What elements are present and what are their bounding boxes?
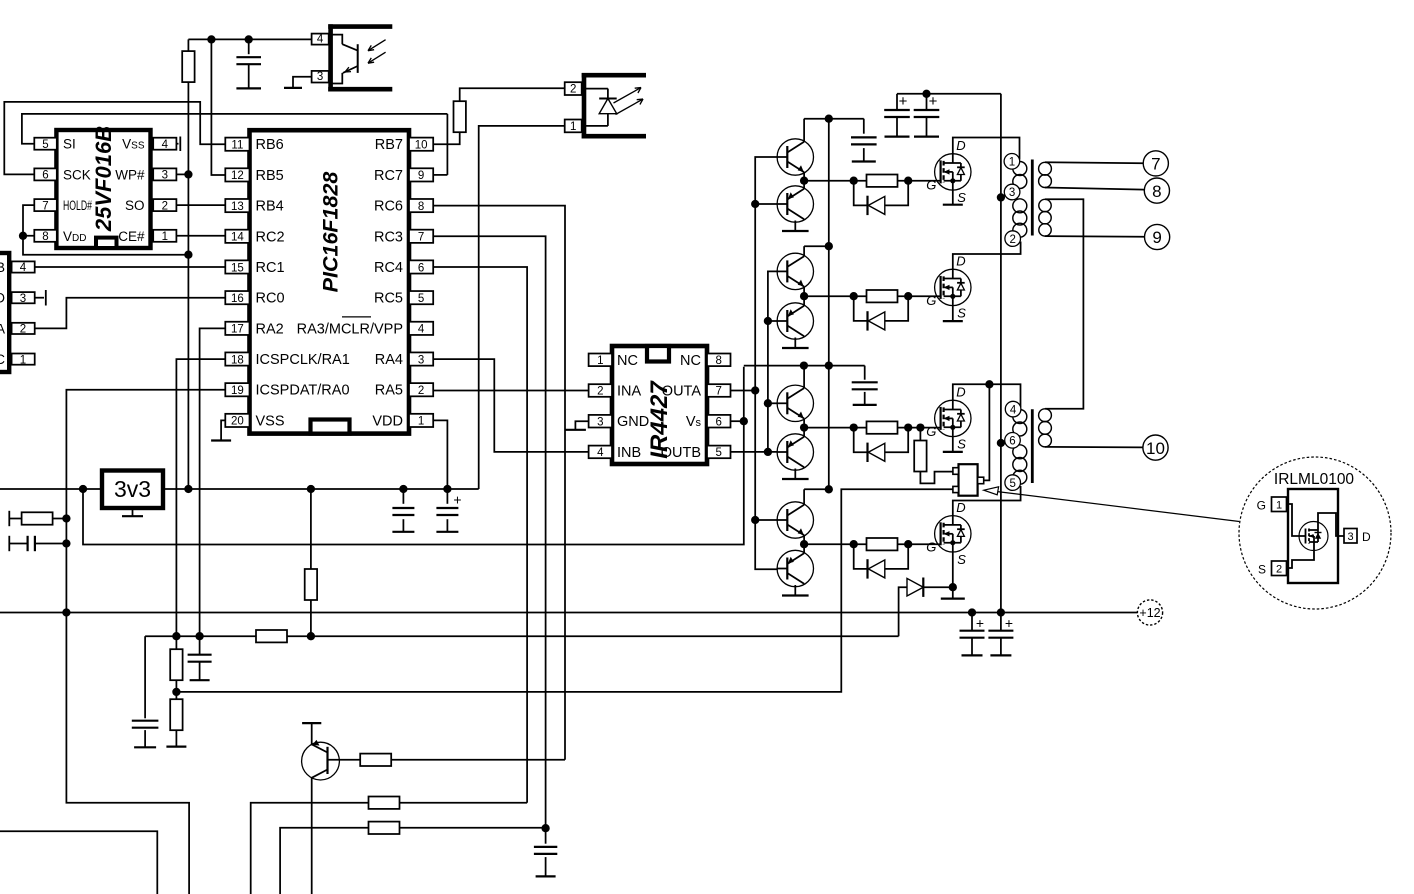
svg-text:6: 6 (418, 262, 424, 274)
diode D row1 (854, 181, 909, 215)
terminal 7 (1143, 151, 1168, 176)
svg-text:6: 6 (1009, 436, 1015, 448)
transistor Q4 (PNP lower) (777, 303, 813, 339)
ground at M3 source (952, 437, 954, 452)
transformer TR1 primary winding (1013, 162, 1027, 176)
resistor R6 (divider upper) (175, 636, 177, 649)
svg-text:6: 6 (715, 416, 721, 428)
pin 4 of U1 (409, 322, 433, 335)
wire T7 base stub (755, 519, 777, 521)
wire U2 SI to RC7 net (22, 114, 448, 144)
svg-text:D: D (956, 384, 965, 399)
resistor gate R row1 (867, 175, 898, 187)
node RC3/C7 (541, 824, 549, 832)
node rail2 (825, 242, 833, 250)
transistor Q5 (NPN upper) (777, 385, 813, 421)
wire ICSPDAT left-down (66, 390, 225, 613)
svg-text:S: S (1258, 563, 1266, 577)
terminal 5 of TR2 (1005, 475, 1021, 491)
wire TR1 tap3 to +12 (1001, 195, 1005, 197)
svg-text:RB7: RB7 (375, 137, 403, 153)
svg-text:4: 4 (162, 139, 169, 151)
svg-text:13: 13 (231, 201, 244, 213)
pin 3 of U1 (409, 352, 433, 365)
node row1 right (904, 177, 912, 185)
svg-text:ICSPDAT/RA0: ICSPDAT/RA0 (256, 383, 350, 399)
transformer TR2 secondary (1039, 409, 1052, 422)
transformer TR2 core (1031, 409, 1034, 483)
node row1 left (850, 177, 858, 185)
node U2 VDD (19, 232, 27, 240)
node rail1 (825, 115, 833, 123)
node ICSPCLK/bus636 (172, 632, 180, 640)
notch of U1 (311, 420, 350, 434)
resistor gate R row3 (867, 421, 898, 433)
wire bottom RC3 leg (280, 828, 369, 894)
svg-text:S: S (957, 552, 966, 567)
node ICSPDAT/bus612 (62, 608, 70, 616)
svg-text:4: 4 (20, 262, 27, 274)
pin 1 of J1 (12, 354, 35, 365)
ground at lower transistor (794, 221, 796, 232)
pin 7 of U2 (34, 199, 57, 211)
pin 11 of U1 (225, 138, 249, 151)
svg-text:VSS: VSS (256, 413, 285, 429)
wire RC3 down (433, 236, 545, 828)
pin 2 of optocoupler U4 (565, 82, 582, 95)
wire emitter node (803, 535, 805, 553)
wire RC6 down to Q5 base (433, 206, 565, 760)
capacitor C6 (RA2 filter) (199, 636, 201, 654)
node R1/WP# junction (184, 170, 192, 178)
pin 2 of Q9 detail (1272, 561, 1287, 576)
ground at M1 source (952, 190, 954, 205)
svg-text:NC: NC (617, 353, 638, 369)
wire U2 SO to RB4 (176, 204, 224, 206)
svg-text:2: 2 (1276, 564, 1282, 576)
transistor Q5 (bottom) (302, 742, 340, 780)
svg-text:RA3/MCLR/VPP: RA3/MCLR/VPP (297, 321, 403, 337)
node row2 left (850, 292, 858, 300)
pin 3 of J1 (12, 292, 35, 303)
wire rail1 (804, 118, 864, 120)
pin 19 of U1 (225, 383, 249, 396)
node rail/C2 junction (399, 485, 407, 493)
capacitor C11 electrolytic (top) (926, 94, 928, 110)
svg-text:8: 8 (715, 355, 721, 367)
wire TR1 sec to term 9 (1045, 235, 1145, 238)
connector J1 body (left edge) (0, 253, 9, 372)
svg-text:RC4: RC4 (374, 260, 403, 276)
resistor R9 (RC3 bottom) (369, 822, 400, 834)
pin 1 of U1 (409, 414, 433, 427)
svg-text:8: 8 (42, 231, 48, 243)
svg-text:2: 2 (1009, 234, 1015, 246)
wire ICSPCLK down (176, 359, 225, 636)
svg-text:IRLML0100: IRLML0100 (1274, 471, 1355, 488)
ground at M2 source (952, 306, 954, 322)
stub at U2 pin 4 Vss (176, 143, 178, 145)
svg-text:SCK: SCK (63, 167, 91, 182)
wire collector to rail (803, 489, 805, 505)
LED inside U4 (582, 88, 608, 90)
wire TR1 lower sec link (1045, 199, 1083, 408)
node RA2/bus636 (195, 632, 203, 640)
pin 2 of Q9 (953, 486, 959, 492)
MOSFET M2 (926, 253, 971, 320)
wire rail bus vertical (828, 119, 830, 490)
svg-text:RC2: RC2 (256, 229, 285, 245)
wire rail4 (804, 488, 829, 490)
wire collector to rail (803, 366, 805, 389)
wire M4 source (952, 552, 954, 599)
pin 10 of U1 (409, 138, 433, 151)
ground at 3v3 regulator (132, 508, 134, 516)
ground at lower transistor (794, 469, 796, 480)
svg-text:VDD: VDD (372, 413, 403, 429)
node rail4 (825, 485, 833, 493)
MOSFET M1 (926, 138, 971, 205)
pin 8 of U2 (34, 230, 57, 242)
svg-text:+: + (453, 492, 461, 508)
wire collector to rail (803, 119, 805, 142)
pin 12 of U1 (225, 168, 249, 181)
node OUTB (764, 448, 772, 456)
svg-text:RA5: RA5 (375, 383, 403, 399)
IC U2 25VF016B body (56, 130, 150, 248)
svg-text:D: D (956, 253, 965, 268)
pin 15 of U1 (225, 260, 249, 273)
svg-text:RA4: RA4 (375, 352, 403, 368)
terminal 9 (1145, 224, 1170, 249)
wire M4 drain to transformer (953, 486, 1021, 516)
transistor Q1 (NPN upper) (777, 139, 813, 175)
wire J1 pin2 to RC0 (35, 298, 226, 329)
node Vs junction (740, 417, 748, 425)
IC U1 PIC16F1828 body (250, 130, 410, 433)
svg-text:6: 6 (42, 170, 48, 182)
notch of U5 (647, 346, 669, 362)
pin 3 of U2 (153, 168, 176, 180)
wire divider mid to SOT23 source (176, 489, 953, 692)
node rail3 T5 (800, 361, 808, 369)
svg-text:A: A (0, 321, 5, 336)
svg-text:7: 7 (715, 386, 721, 398)
light arrows out of U4 (614, 88, 642, 104)
pin 2 of J1 (12, 323, 35, 334)
pin 9 of U1 (409, 168, 433, 181)
svg-text:4: 4 (317, 33, 324, 45)
node R3/bus636 (307, 632, 315, 640)
pin 1 of U5 (589, 354, 612, 367)
wire bus y636 (145, 635, 256, 637)
wire TR1 sec to term 7 (1045, 161, 1143, 164)
node R4/ICSPDAT (62, 514, 70, 522)
node divider mid (172, 688, 180, 696)
node +12 tap T1 (997, 193, 1005, 201)
transistor Q8 (PNP lower) (777, 550, 813, 586)
pin 14 of U1 (225, 230, 249, 243)
svg-text:HOLD#: HOLD# (63, 198, 92, 213)
pin 6 of U2 (34, 168, 57, 180)
wire T4 base stub (768, 320, 777, 322)
transformer TR1 secondary upper (1039, 162, 1052, 175)
svg-text:8: 8 (418, 201, 424, 213)
stub at J1 pin3 (35, 297, 44, 299)
wire TR2 sec to term 10 (1045, 446, 1143, 449)
pin 5 of U2 (34, 138, 57, 150)
wire OUTA (731, 390, 756, 392)
terminal 8 (1144, 178, 1169, 203)
resistor R10 (Q5 base) (360, 754, 391, 766)
node T7 base (751, 516, 759, 524)
svg-text:3: 3 (162, 170, 168, 182)
ground at lower transistor (794, 338, 796, 349)
resistor R3 (3v3 to node) (310, 489, 312, 569)
resistor R11 (to SOT23 gate) (919, 428, 921, 441)
package outline Q9 detail (1288, 489, 1338, 583)
wire RA4 to INB (433, 359, 588, 452)
svg-text:RB6: RB6 (256, 137, 284, 153)
svg-text:2: 2 (418, 385, 424, 397)
wire bottom RC4 leg (251, 803, 369, 894)
svg-text:D: D (0, 291, 5, 306)
pin 4 of J1 (12, 261, 35, 272)
node driver output (800, 423, 808, 431)
svg-text:17: 17 (231, 324, 244, 336)
svg-text:OUTA: OUTA (662, 384, 702, 400)
svg-text:+: + (899, 93, 908, 110)
wire rail2 (804, 245, 829, 247)
wire driver row 3 (804, 427, 941, 429)
svg-text:3: 3 (418, 354, 424, 366)
wire Q9 detail source (1287, 542, 1315, 568)
wire RA2 down (200, 328, 226, 636)
capacitor C4 (left input) (8, 536, 10, 551)
svg-text:RA2: RA2 (256, 321, 284, 337)
ground at U5 GND pin (575, 421, 588, 430)
node rail/R3 junction (307, 485, 315, 493)
wire U1 VDD to 3v3 rail (433, 420, 447, 489)
pin 2 of U1 (409, 383, 433, 396)
wire RB5 to top rail (211, 39, 224, 175)
svg-text:12: 12 (231, 170, 244, 182)
pin 3 of optocoupler U3 (312, 71, 329, 83)
svg-text:PIC16F1828: PIC16F1828 (319, 172, 343, 293)
wire emitter node (803, 287, 805, 306)
svg-text:GND: GND (617, 414, 649, 430)
pin 1 of Q9 detail (1272, 497, 1287, 512)
svg-text:10: 10 (415, 140, 428, 152)
MOSFET symbol in detail (1299, 522, 1328, 551)
wire top rail (RB5 / opto1 net) (188, 38, 311, 40)
svg-text:G: G (926, 177, 936, 192)
wire ICSPDAT lower leg (66, 613, 189, 894)
pin 2 of U2 (153, 199, 176, 211)
svg-text:14: 14 (231, 232, 244, 244)
node T2 base (751, 200, 759, 208)
transistor Q9 SOT-23 package (959, 464, 978, 496)
pin 2 of U5 (589, 384, 612, 397)
resistor R8 (RC4 bottom) (369, 797, 400, 809)
svg-text:CE#: CE# (118, 229, 145, 244)
capacitor C3 electrolytic (446, 489, 448, 504)
svg-text:RC3: RC3 (374, 229, 403, 245)
node driver output (800, 292, 808, 300)
pin 8 of U1 (409, 199, 433, 212)
svg-text:3: 3 (597, 416, 603, 428)
svg-text:1: 1 (162, 231, 168, 243)
wire J1 pin4 to RC1 (35, 266, 226, 268)
svg-text:3v3: 3v3 (114, 476, 151, 502)
svg-text:RC0: RC0 (256, 291, 285, 307)
resistor R7 (divider lower) (175, 692, 177, 699)
pin 7 of U1 (409, 230, 433, 243)
pin 3 of Q9 detail (1344, 529, 1357, 544)
svg-text:INB: INB (617, 445, 641, 461)
terminal 12 (+12V) (1137, 600, 1162, 625)
notch of U2 (96, 238, 117, 248)
terminal 1 of TR1 (1004, 154, 1020, 170)
svg-text:5: 5 (715, 447, 721, 459)
svg-text:+: + (976, 615, 984, 631)
wire OUTA bus vertical (755, 157, 777, 569)
node T4 base (764, 317, 772, 325)
svg-text:5: 5 (418, 293, 424, 305)
svg-text:9: 9 (418, 170, 424, 182)
light arrows into U3 (368, 40, 386, 51)
wire driver row 2 (804, 295, 941, 297)
svg-text:16: 16 (231, 293, 244, 305)
resistor R2 (RB7 LED series) (433, 132, 460, 144)
node top-rail / RB5 branch (207, 35, 215, 43)
phototransistor inside U3 (332, 35, 343, 45)
svg-text:5: 5 (42, 139, 48, 151)
svg-text:1: 1 (597, 355, 603, 367)
wire M2 drain to transformer (953, 242, 1021, 270)
svg-text:G: G (926, 539, 936, 554)
svg-text:G: G (926, 293, 936, 308)
wire emitter node (803, 419, 805, 437)
capacitor C8 (rail1) (863, 119, 865, 134)
node rail/VDD junction (443, 485, 451, 493)
pin 20 of U1 (225, 414, 249, 427)
svg-text:7: 7 (418, 232, 424, 244)
node C4/ICSPDAT (62, 539, 70, 547)
svg-text:RC6: RC6 (374, 199, 403, 215)
node +12 bus612 (997, 608, 1005, 616)
svg-text:+: + (1005, 615, 1013, 631)
wire bottom-left L (0, 831, 157, 894)
ground at lower transistor (794, 585, 796, 596)
wire T5 base stub (768, 402, 777, 404)
svg-text:3: 3 (1347, 531, 1353, 543)
node rail3 bus (825, 361, 833, 369)
svg-text:7: 7 (1151, 155, 1160, 174)
node OUTA (751, 386, 759, 394)
svg-text:4: 4 (597, 447, 604, 459)
pin 5 of U1 (409, 291, 433, 304)
svg-text:INA: INA (617, 384, 642, 400)
node row2 right (904, 292, 912, 300)
svg-text:+12: +12 (1139, 606, 1160, 620)
transformer TR1 secondary lower (1039, 199, 1051, 211)
svg-text:1: 1 (20, 354, 26, 366)
terminal 10 (1143, 435, 1168, 460)
pin 7 of U5 (707, 384, 731, 397)
svg-text:WP#: WP# (115, 167, 145, 182)
capacitor C2 (3v3 decoupling) (402, 489, 404, 504)
pin 4 of U2 (153, 138, 176, 150)
svg-text:20: 20 (231, 416, 244, 428)
optocoupler U3 body (top) (328, 24, 392, 29)
svg-text:1: 1 (1009, 157, 1015, 169)
svg-text:9: 9 (1152, 228, 1161, 247)
wire Q9 detail drain (1318, 513, 1344, 536)
svg-text:3: 3 (317, 71, 323, 83)
pin 3 of Q9 (978, 477, 984, 484)
node 12V input branch (79, 485, 87, 493)
node driver output (800, 540, 808, 548)
diode D row4 (854, 544, 909, 578)
resistor R5 (on bus y636) (256, 630, 287, 642)
svg-text:1: 1 (418, 416, 424, 428)
svg-text:4: 4 (418, 324, 425, 336)
wire R10 to RC6 (391, 759, 565, 761)
transistor Q3 (NPN upper) (777, 253, 813, 289)
svg-text:D: D (1362, 530, 1371, 544)
svg-text:15: 15 (231, 262, 244, 274)
wire U2 WP# to 3v3 net (176, 173, 188, 175)
svg-text:3: 3 (20, 293, 26, 305)
wire collector to rail (803, 246, 805, 256)
svg-text:D: D (956, 500, 965, 515)
svg-text:5: 5 (1009, 478, 1015, 490)
svg-text:25VF016B: 25VF016B (91, 126, 116, 232)
svg-text:1: 1 (1276, 500, 1282, 512)
pin 13 of U1 (225, 199, 249, 212)
capacitor C5 (bus636 left) (144, 636, 146, 718)
IC U5 IR4427 body (612, 346, 707, 464)
pin 8 of U5 (707, 354, 731, 367)
svg-text:RB5: RB5 (256, 168, 284, 184)
node T5 base (764, 399, 772, 407)
resistor gate R row4 (867, 538, 898, 550)
wire rail3 (744, 365, 865, 367)
transistor Q2 (PNP lower) (777, 186, 813, 222)
wire TR1 sec to term 8 (1045, 188, 1145, 190)
wire driver row 4 (804, 543, 941, 545)
pin 17 of U1 (225, 322, 249, 335)
transformer TR1 core (1031, 160, 1034, 236)
MOSFET M3 (926, 384, 971, 451)
ground at U1 pin 20 VSS (221, 420, 225, 440)
wire Q5 emitter down (311, 778, 313, 894)
wire RC7 to SI (433, 174, 447, 176)
node VDD-net junction (184, 251, 192, 259)
svg-text:NC: NC (680, 353, 701, 369)
svg-text:3: 3 (1009, 187, 1015, 199)
svg-text:18: 18 (231, 354, 244, 366)
svg-text:RC5: RC5 (374, 291, 403, 307)
svg-text:4: 4 (1010, 404, 1017, 416)
svg-text:2: 2 (570, 84, 576, 96)
pin 16 of U1 (225, 291, 249, 304)
wire +12 to driver supply (83, 367, 744, 545)
terminal bar above Q5 (311, 723, 313, 744)
detail circle IRLML0100 (1239, 457, 1391, 609)
wire M1 drain to transformer (953, 138, 1020, 160)
